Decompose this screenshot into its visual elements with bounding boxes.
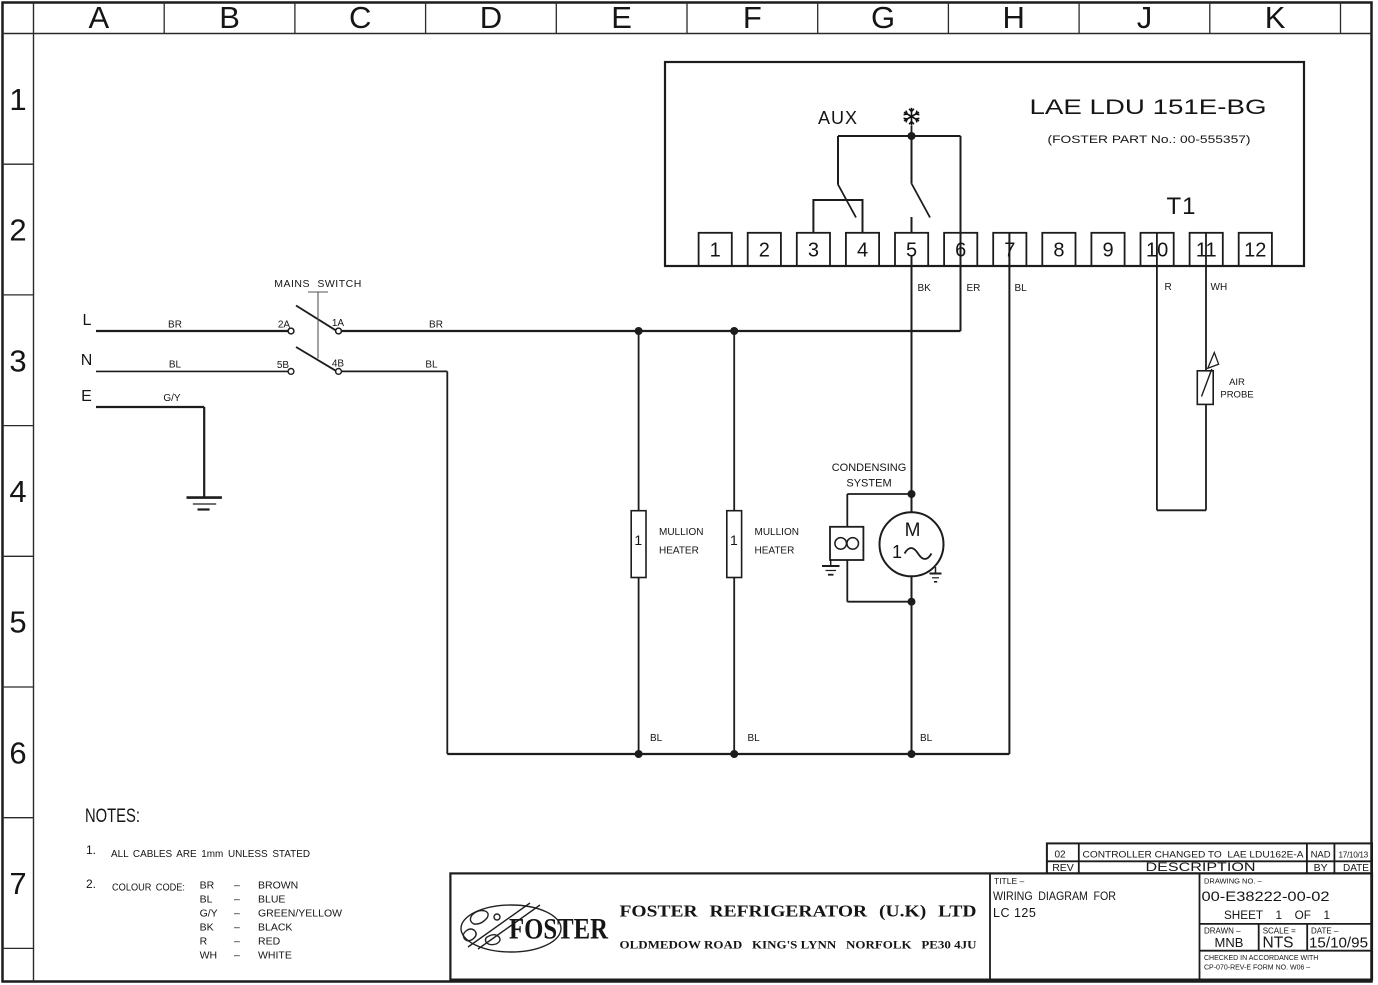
svg-text:4: 4	[9, 474, 26, 509]
svg-text:M: M	[905, 520, 921, 541]
svg-text:MULLION: MULLION	[659, 527, 703, 538]
svg-text:J: J	[1137, 0, 1153, 35]
svg-text:5B: 5B	[277, 360, 290, 371]
svg-text:5: 5	[906, 240, 917, 262]
svg-text:BL: BL	[425, 360, 438, 371]
svg-text:PROBE: PROBE	[1220, 390, 1253, 401]
svg-text:K: K	[1265, 0, 1286, 35]
svg-text:11: 11	[1196, 240, 1217, 262]
svg-text:00-E38222-00-02: 00-E38222-00-02	[1202, 889, 1330, 904]
svg-text:BY: BY	[1314, 862, 1328, 874]
svg-text:SHEET 1 OF 1: SHEET 1 OF 1	[1224, 910, 1330, 922]
svg-text:E: E	[81, 388, 92, 405]
svg-text:BL: BL	[920, 733, 933, 744]
svg-text:N: N	[81, 352, 93, 369]
svg-text:MAINS SWITCH: MAINS SWITCH	[274, 278, 362, 290]
svg-text:–: –	[234, 908, 240, 920]
svg-text:1: 1	[730, 532, 738, 548]
svg-text:–: –	[234, 936, 240, 948]
svg-text:1: 1	[634, 532, 642, 548]
svg-text:12: 12	[1244, 240, 1266, 262]
svg-text:TITLE –: TITLE –	[994, 876, 1025, 886]
svg-text:BL: BL	[200, 894, 213, 906]
svg-text:NAD: NAD	[1311, 850, 1331, 861]
svg-text:E: E	[611, 0, 632, 35]
svg-text:–: –	[234, 880, 240, 892]
svg-text:3: 3	[808, 240, 819, 262]
svg-text:REV: REV	[1052, 862, 1074, 874]
svg-text:FOSTER: FOSTER	[509, 913, 608, 946]
svg-text:OLDMEDOW ROAD KING'S LYNN: OLDMEDOW ROAD KING'S LYNN NORFOLK PE30 4…	[620, 938, 977, 952]
svg-text:R: R	[200, 936, 208, 948]
svg-text:RED: RED	[258, 936, 281, 948]
svg-text:FOSTER REFRIGERATOR (U.K) LTD: FOSTER REFRIGERATOR (U.K) LTD	[620, 902, 977, 921]
svg-text:C: C	[349, 0, 371, 35]
svg-text:WIRING DIAGRAM FOR: WIRING DIAGRAM FOR	[993, 889, 1116, 903]
svg-text:AIR: AIR	[1229, 377, 1245, 388]
svg-text:BL: BL	[169, 360, 182, 371]
svg-text:T1: T1	[1166, 193, 1196, 220]
svg-text:DESCRIPTION: DESCRIPTION	[1146, 862, 1256, 874]
svg-text:WH: WH	[1211, 282, 1228, 293]
svg-text:A: A	[89, 0, 110, 35]
svg-text:3: 3	[9, 343, 26, 378]
svg-text:1A: 1A	[332, 318, 345, 329]
svg-text:10: 10	[1146, 240, 1168, 262]
svg-text:BL: BL	[650, 733, 663, 744]
svg-text:R: R	[1165, 282, 1172, 293]
svg-text:1: 1	[9, 82, 26, 117]
svg-text:BK: BK	[918, 283, 932, 294]
svg-text:BK: BK	[200, 922, 214, 934]
svg-text:H: H	[1003, 0, 1025, 35]
svg-text:(FOSTER PART No.: 00-555357): (FOSTER PART No.: 00-555357)	[1048, 134, 1251, 146]
svg-text:DRAWING NO. –: DRAWING NO. –	[1204, 877, 1262, 886]
svg-text:G/Y: G/Y	[163, 393, 181, 404]
svg-text:L: L	[83, 312, 92, 329]
svg-text:BLUE: BLUE	[258, 894, 285, 906]
svg-text:BL: BL	[748, 733, 761, 744]
svg-text:G/Y: G/Y	[200, 908, 218, 920]
svg-text:BR: BR	[200, 880, 215, 892]
svg-text:HEATER: HEATER	[659, 546, 699, 557]
svg-text:MULLION: MULLION	[755, 527, 799, 538]
svg-text:NTS: NTS	[1263, 935, 1294, 952]
svg-text:F: F	[743, 0, 762, 35]
svg-text:B: B	[219, 0, 240, 35]
svg-text:G: G	[871, 0, 895, 35]
svg-text:BR: BR	[429, 320, 443, 331]
svg-text:1: 1	[710, 240, 721, 262]
svg-text:2A: 2A	[278, 320, 291, 331]
svg-text:BL: BL	[1015, 283, 1028, 294]
svg-text:ALL CABLES ARE 1mm UNLESS STAT: ALL CABLES ARE 1mm UNLESS STATED	[111, 848, 310, 860]
svg-text:DATE: DATE	[1343, 863, 1369, 874]
svg-text:–: –	[234, 922, 240, 934]
svg-text:HEATER: HEATER	[755, 546, 795, 557]
svg-text:–: –	[234, 894, 240, 906]
svg-text:4B: 4B	[332, 359, 345, 370]
svg-text:NOTES:: NOTES:	[85, 806, 140, 827]
svg-text:MNB: MNB	[1215, 935, 1244, 950]
svg-text:CONDENSING: CONDENSING	[832, 462, 907, 474]
svg-text:7: 7	[9, 866, 26, 901]
svg-text:BLACK: BLACK	[258, 922, 292, 934]
svg-text:1.: 1.	[86, 843, 96, 857]
svg-text:9: 9	[1102, 240, 1113, 262]
svg-text:WH: WH	[200, 950, 218, 962]
svg-text:17/10/13: 17/10/13	[1338, 851, 1368, 860]
svg-text:BR: BR	[168, 320, 182, 331]
svg-text:CONTROLLER CHANGED TO LAE LDU: CONTROLLER CHANGED TO LAE LDU162E-A	[1083, 850, 1305, 861]
svg-text:GREEN/YELLOW: GREEN/YELLOW	[258, 908, 342, 920]
svg-text:–: –	[234, 950, 240, 962]
svg-text:AUX: AUX	[818, 108, 858, 128]
svg-text:4: 4	[857, 240, 868, 262]
svg-text:BROWN: BROWN	[258, 880, 298, 892]
svg-text:6: 6	[9, 735, 26, 770]
svg-text:D: D	[480, 0, 502, 35]
svg-text:LAE LDU 151E-BG: LAE LDU 151E-BG	[1030, 95, 1267, 119]
svg-text:CP-070-REV-E FORM NO. W06 –: CP-070-REV-E FORM NO. W06 –	[1204, 965, 1310, 972]
svg-text:CHECKED IN ACCORDANCE WITH: CHECKED IN ACCORDANCE WITH	[1204, 955, 1318, 962]
svg-text:1: 1	[892, 542, 902, 562]
svg-text:SYSTEM: SYSTEM	[846, 478, 891, 490]
svg-text:LC 125: LC 125	[993, 906, 1036, 920]
svg-text:15/10/95: 15/10/95	[1309, 935, 1368, 952]
svg-text:2: 2	[759, 240, 770, 262]
svg-text:5: 5	[9, 605, 26, 640]
svg-text:ER: ER	[967, 283, 981, 294]
svg-text:2: 2	[9, 213, 26, 248]
svg-text:6: 6	[955, 240, 966, 262]
svg-text:WHITE: WHITE	[258, 950, 292, 962]
svg-text:7: 7	[1004, 240, 1015, 262]
svg-text:COLOUR CODE:: COLOUR CODE:	[112, 882, 185, 894]
svg-text:2.: 2.	[86, 877, 96, 891]
svg-text:8: 8	[1053, 240, 1064, 262]
svg-text:02: 02	[1054, 850, 1066, 861]
